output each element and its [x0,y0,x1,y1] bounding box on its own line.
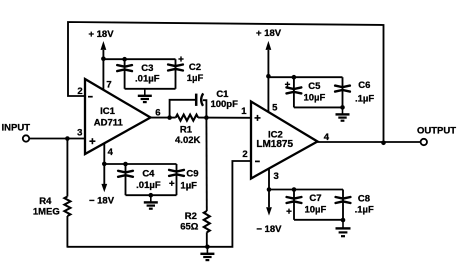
svg-text:C8: C8 [358,193,370,204]
svg-text:5: 5 [272,102,278,113]
svg-text:4.02K: 4.02K [175,135,200,146]
svg-text:C2: C2 [189,62,201,73]
svg-text:1: 1 [241,106,247,117]
svg-text:10µF: 10µF [304,205,326,216]
svg-text:.1µF: .1µF [355,93,374,104]
svg-text:C9: C9 [186,169,198,180]
svg-text:2: 2 [242,149,247,160]
svg-text:AD711: AD711 [94,117,124,128]
svg-text:.1µF: .1µF [355,205,374,216]
svg-text:C4: C4 [142,169,155,180]
svg-text:R2: R2 [185,211,197,222]
svg-text:C5: C5 [308,81,321,92]
svg-text:C6: C6 [358,80,370,91]
svg-text:.01µF: .01µF [135,74,160,85]
svg-text:R4: R4 [39,196,52,207]
svg-text:C7: C7 [309,193,321,204]
svg-text:4: 4 [108,147,114,158]
svg-text:R1: R1 [180,124,193,135]
svg-text:LM1875: LM1875 [256,139,293,150]
svg-text:+ 18V: + 18V [88,29,114,40]
svg-text:C3: C3 [141,63,153,74]
svg-text:OUTPUT: OUTPUT [417,125,456,136]
svg-text:2: 2 [77,86,82,97]
svg-text:− 18V: − 18V [89,195,115,206]
svg-text:65Ω: 65Ω [180,222,199,233]
svg-text:INPUT: INPUT [2,122,31,133]
svg-text:100pF: 100pF [210,99,238,110]
svg-text:3: 3 [273,171,278,182]
svg-text:.01µF: .01µF [136,180,161,191]
svg-text:1MEG: 1MEG [33,207,60,218]
svg-text:− 18V: − 18V [256,224,282,235]
svg-text:1µF: 1µF [187,73,204,84]
svg-text:6: 6 [155,108,160,119]
svg-text:IC1: IC1 [100,106,116,117]
svg-text:4: 4 [324,132,330,143]
svg-text:7: 7 [106,79,111,90]
svg-text:1µF: 1µF [180,180,197,191]
svg-text:+ 18V: + 18V [256,28,282,39]
svg-text:3: 3 [77,128,82,139]
svg-text:10µF: 10µF [303,92,325,103]
